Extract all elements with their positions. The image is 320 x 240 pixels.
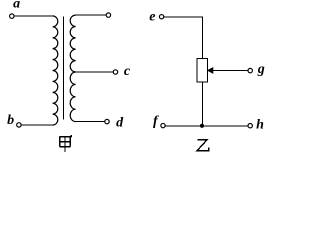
junction node (200, 124, 204, 128)
terminal a (10, 14, 14, 18)
terminal top-right (106, 13, 110, 17)
transformer core (62, 17, 64, 120)
secondary winding upper (70, 15, 75, 72)
terminal d (105, 119, 109, 123)
wire secondary top terminal (76, 14, 106, 16)
svg-text:e: e (149, 10, 155, 25)
svg-text:h: h (256, 118, 264, 133)
terminal g (248, 68, 252, 72)
wire e to rheostat (164, 17, 203, 59)
label yi (rheostat) (197, 140, 209, 151)
bottom wire f to h (165, 125, 248, 127)
wire b to primary coil (21, 124, 52, 126)
terminal h (248, 124, 252, 128)
wiper arrow shaft to g (212, 69, 248, 71)
rheostat body (197, 58, 208, 82)
secondary winding lower (70, 72, 75, 122)
svg-text:f: f (153, 114, 159, 129)
primary winding L1 (53, 16, 58, 125)
svg-text:b: b (7, 113, 14, 128)
wire secondary bottom to d (76, 121, 105, 123)
svg-text:a: a (13, 0, 20, 12)
terminal e (159, 15, 163, 19)
terminal b (17, 123, 21, 127)
svg-text:c: c (124, 64, 131, 79)
terminal f (161, 123, 165, 127)
terminal c (113, 70, 117, 74)
wire a to primary coil (14, 15, 52, 17)
wire rheostat to bottom (201, 82, 203, 126)
wire center tap to c (76, 71, 114, 73)
svg-text:g: g (257, 62, 265, 77)
wiper arrow head (208, 68, 213, 73)
svg-text:d: d (116, 116, 124, 131)
label jia (transformer) (60, 135, 72, 152)
